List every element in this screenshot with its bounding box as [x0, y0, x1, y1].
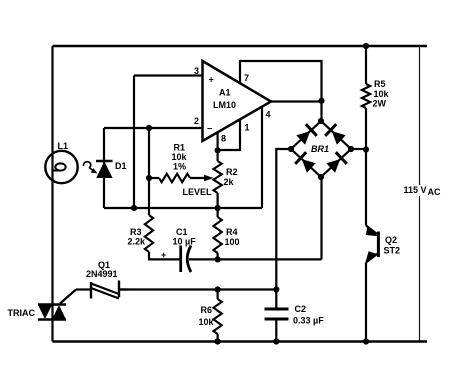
svg-text:R4: R4	[226, 227, 238, 237]
resistor R4	[217, 208, 219, 217]
svg-text:10k: 10k	[199, 317, 215, 327]
diode BR1 top-right	[332, 131, 346, 145]
wire: lower sense bus (y=208)	[104, 207, 262, 209]
svg-text:115 V: 115 V	[404, 185, 427, 195]
svg-text:C2: C2	[295, 304, 307, 314]
potentiometer R2	[213, 161, 221, 193]
svg-text:R6: R6	[201, 305, 213, 315]
wire: pin 4 drop to sense bus	[261, 107, 263, 208]
svg-text:A1: A1	[219, 88, 231, 98]
svg-text:8: 8	[221, 134, 226, 144]
wire: right 115VAC line	[419, 46, 421, 342]
svg-text:1: 1	[245, 123, 250, 133]
svg-text:BR1: BR1	[311, 144, 329, 154]
bridge rectifier BR1	[288, 118, 354, 180]
capacitor C1 (polarized)	[161, 246, 191, 273]
svg-text:0.33 µF: 0.33 µF	[293, 316, 324, 326]
wire: pin 1 lead and link to pin 8	[218, 120, 240, 151]
svg-text:7: 7	[244, 73, 249, 83]
node: junction at pin3 column	[131, 205, 137, 211]
wire: bottom rail	[53, 340, 428, 343]
wire: bridge bottom drop	[320, 177, 322, 259]
svg-text:D1: D1	[115, 161, 127, 171]
node: C1/R4 junction	[215, 256, 221, 262]
node: gate bus / R6	[215, 286, 221, 292]
triac (power device)	[38, 290, 76, 320]
node: junction pin2 wire / sense column	[146, 125, 152, 131]
wire: pin 3 lead	[134, 74, 202, 76]
wire: pin2/D1 top wire	[104, 127, 202, 129]
wire: bridge left vertex to C2 column	[276, 149, 291, 290]
svg-text:LM10: LM10	[213, 100, 236, 110]
svg-text:R2: R2	[226, 167, 238, 177]
diode BR1 top-left	[296, 131, 310, 145]
diode BR1 bottom-right	[326, 159, 340, 173]
svg-text:R1: R1	[174, 143, 186, 153]
svg-text:TRIAC: TRIAC	[8, 308, 36, 318]
resistor R5	[365, 46, 367, 84]
svg-text:2: 2	[194, 116, 199, 126]
svg-text:10k: 10k	[172, 152, 188, 162]
svg-text:L1: L1	[58, 141, 69, 151]
node: Q2 bottom	[363, 338, 369, 344]
wire: bridge right vertex link	[351, 148, 366, 150]
svg-text:2W: 2W	[373, 99, 387, 109]
svg-text:R5: R5	[374, 79, 386, 89]
wire: pin 3 column	[133, 76, 135, 209]
node: R1 left junction	[146, 175, 152, 181]
svg-text:2.2k: 2.2k	[128, 237, 147, 247]
svg-text:LEVEL: LEVEL	[183, 187, 213, 197]
node: gate bus / C2 column	[273, 286, 279, 292]
capacitor C2	[265, 290, 289, 342]
wire: pin 8 lead	[217, 132, 219, 150]
svg-text:1%: 1%	[173, 162, 186, 172]
resistor R3	[145, 215, 153, 252]
svg-text:ST2: ST2	[384, 246, 401, 256]
wire: top supply rail	[53, 45, 428, 48]
svg-text:+: +	[161, 250, 166, 260]
wire: gate bus (Q1 output row)	[119, 288, 276, 290]
svg-text:C1: C1	[176, 227, 188, 237]
wire: pin 7 loop to output	[240, 61, 322, 121]
node: output / pin7 junction	[318, 98, 324, 104]
wire: D1 branch left column	[103, 128, 105, 208]
resistor R6	[217, 290, 219, 300]
svg-text:Q2: Q2	[385, 235, 397, 245]
svg-text:AC: AC	[428, 187, 441, 197]
node: R2/R4/sense-bus junction	[215, 205, 221, 211]
svg-text:4: 4	[266, 110, 271, 120]
svg-text:2k: 2k	[224, 177, 235, 187]
wire: sense column (pin2 node down through R3)	[148, 128, 150, 215]
wire: C1 row to R4/bridge-bottom	[189, 258, 322, 260]
diode BR1 bottom-left	[302, 159, 316, 173]
svg-text:−: −	[207, 124, 212, 134]
svg-text:100: 100	[225, 237, 240, 247]
node: C2 bottom	[273, 338, 279, 344]
svg-text:10 µF: 10 µF	[173, 237, 197, 247]
svg-text:3: 3	[194, 66, 199, 76]
svg-text:10k: 10k	[374, 89, 390, 99]
lamp L1	[45, 151, 77, 183]
resistor R1 with wiper arrow	[149, 177, 159, 179]
op-amp A1 (LM10)	[203, 61, 272, 141]
svg-text:R3: R3	[130, 227, 142, 237]
SUS Q1 (2N4991)	[76, 281, 129, 299]
trigger Q2 (ST2)	[365, 150, 378, 342]
node: R5 top rail junction	[363, 43, 369, 49]
node: R6 bottom	[215, 338, 221, 344]
wire: op-amp output	[271, 100, 322, 102]
photodiode D1	[83, 161, 112, 178]
label 115 VAC	[402, 185, 441, 197]
svg-text:+: +	[209, 75, 214, 85]
wire: left rail (lamp/triac branch)	[51, 46, 53, 342]
node: pin8/R2 junction	[215, 147, 221, 153]
node: bridge right / Q2 column	[363, 146, 369, 152]
svg-text:2N4991: 2N4991	[86, 269, 118, 279]
